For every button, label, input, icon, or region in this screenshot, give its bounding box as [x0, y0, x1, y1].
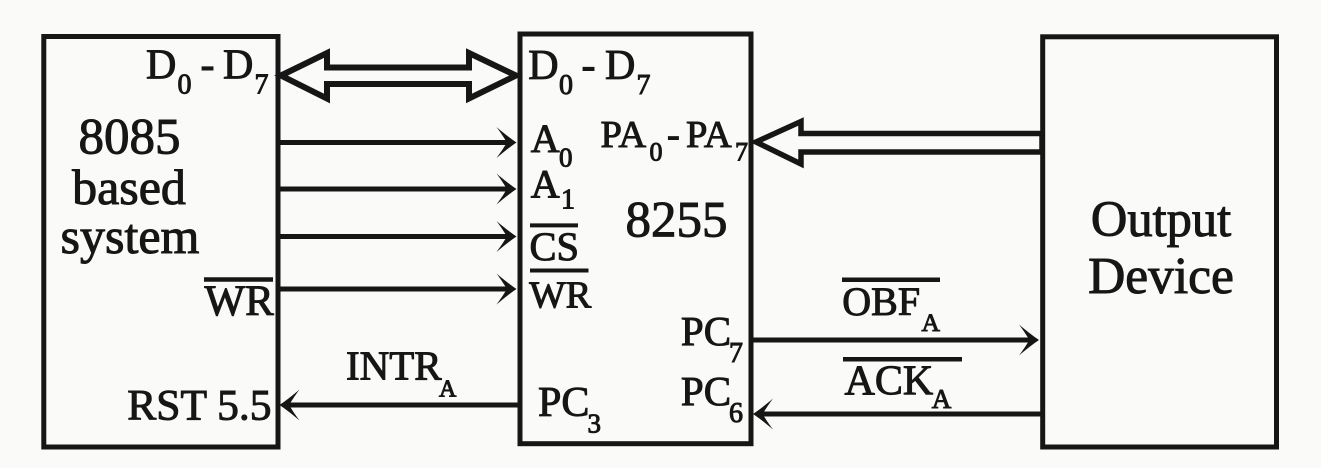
svg-text:Device: Device	[1088, 248, 1234, 305]
svg-text:D: D	[223, 43, 253, 89]
svg-text:-: -	[582, 43, 596, 89]
svg-text:RST 5.5: RST 5.5	[127, 382, 271, 430]
svg-text:-: -	[201, 43, 215, 89]
svg-text:system: system	[61, 208, 200, 264]
svg-text:PA: PA	[601, 114, 647, 156]
wire CS with arrowhead	[280, 221, 517, 252]
svg-text:0: 0	[650, 138, 663, 167]
svg-text:D: D	[146, 43, 176, 89]
svg-text:7: 7	[255, 70, 269, 101]
svg-text:CS: CS	[530, 224, 580, 269]
label 8255	[626, 193, 728, 249]
label PC6	[681, 368, 743, 429]
label 8085	[79, 110, 181, 166]
svg-text:A: A	[531, 116, 560, 161]
svg-text:3: 3	[588, 409, 602, 439]
svg-text:0: 0	[559, 70, 573, 101]
svg-text:7: 7	[637, 70, 651, 101]
wire A1 with arrowhead	[280, 174, 517, 205]
svg-text:1: 1	[561, 185, 575, 216]
label WR (8085 side) with overline	[204, 278, 274, 325]
label ACK A with overline	[843, 359, 962, 415]
svg-text:0: 0	[559, 143, 573, 173]
label A0	[531, 116, 573, 173]
label D0-D7 (8085 side)	[146, 43, 269, 101]
svg-text:WR: WR	[529, 275, 591, 317]
svg-text:INTR: INTR	[346, 343, 442, 389]
svg-text:8085: 8085	[79, 110, 181, 166]
svg-text:A: A	[439, 377, 457, 403]
svg-text:0: 0	[178, 70, 192, 101]
label A1	[531, 162, 575, 216]
wire WR with arrowhead	[280, 274, 517, 305]
label Output	[1091, 191, 1231, 247]
svg-text:-: -	[667, 114, 680, 156]
wire A0 with arrowhead	[280, 127, 517, 158]
svg-text:A: A	[932, 384, 952, 414]
svg-text:PC: PC	[538, 380, 589, 426]
wire ACK from Output Device to PC6 with left arrowhead	[753, 399, 1043, 430]
label WR (8255 side) with overline	[529, 271, 591, 317]
label OBF A with overline	[842, 279, 941, 337]
block: 8085 based system	[44, 37, 278, 448]
bus PA0-PA7 hollow arrow (from Output Device to 8255)	[756, 122, 1042, 165]
svg-text:A: A	[531, 162, 560, 207]
block: 8255	[520, 34, 751, 444]
svg-text:6: 6	[729, 398, 743, 429]
label system	[61, 208, 200, 264]
svg-text:PA: PA	[686, 114, 732, 156]
svg-text:8255: 8255	[626, 193, 728, 249]
svg-text:OBF: OBF	[842, 279, 920, 324]
svg-text:PC: PC	[681, 308, 731, 354]
label RST 5.5	[127, 382, 271, 430]
label Device	[1088, 248, 1234, 305]
label based	[72, 159, 186, 215]
wire OBF from PC7 to Output Device with arrowhead	[751, 325, 1039, 356]
label PA0 - PA7	[601, 114, 749, 167]
svg-text:D: D	[528, 43, 558, 89]
svg-text:ACK: ACK	[845, 359, 934, 405]
svg-text:7: 7	[729, 338, 743, 369]
svg-text:WR: WR	[205, 278, 275, 325]
label PC3	[538, 380, 601, 439]
svg-text:A: A	[922, 308, 941, 337]
label PC7	[681, 308, 743, 369]
svg-text:PC: PC	[681, 368, 731, 414]
svg-text:7: 7	[735, 138, 748, 167]
label D0-D7 (8255 side)	[528, 43, 650, 101]
block: Output Device	[1043, 37, 1277, 447]
wire INTR from PC3 to RST 5.5 with left arrowhead	[280, 390, 521, 421]
label INTR A	[346, 343, 457, 403]
bus D0-D7 bidirectional hollow arrow	[281, 53, 516, 99]
svg-text:based: based	[72, 159, 186, 215]
label CS with overline	[530, 224, 580, 269]
svg-text:Output: Output	[1091, 191, 1231, 247]
svg-text:D: D	[605, 43, 635, 89]
